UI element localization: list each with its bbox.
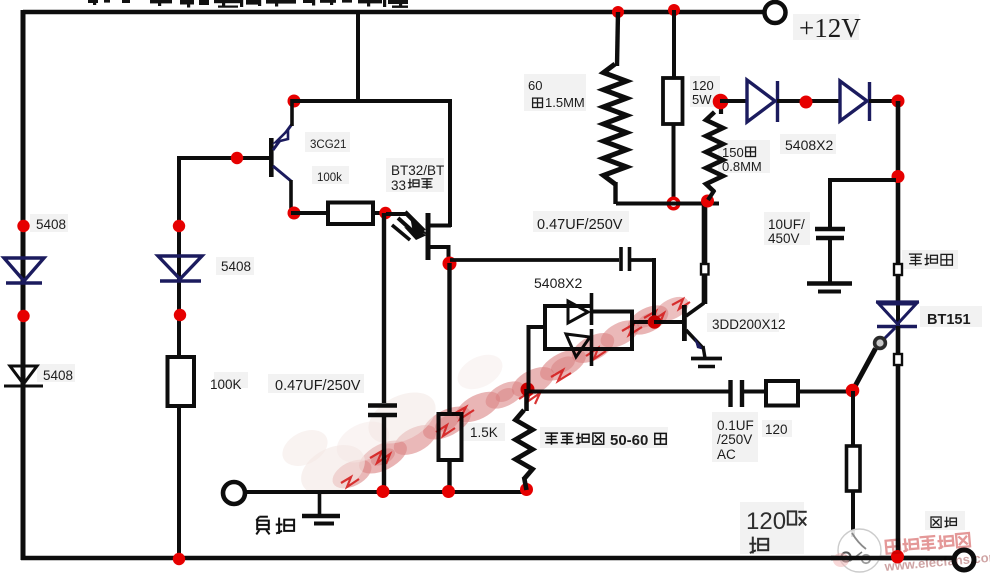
svg-text:50-60: 50-60: [610, 432, 648, 449]
node R1 right: [379, 207, 391, 219]
capacitor C3 10UF/450V: [815, 229, 845, 238]
wire bottom rail: [21, 556, 953, 561]
wire SCR cathode: [896, 326, 901, 557]
diode D3 5408: [158, 256, 202, 281]
node below D3: [174, 309, 186, 321]
wire C3 vertical upper: [828, 178, 832, 227]
watermark elecfans stamp: [833, 529, 881, 572]
svg-text:5W: 5W: [692, 92, 712, 107]
wire R4 bottom lead: [672, 124, 676, 198]
wire R6 top lead: [851, 391, 855, 447]
node top rail L2: [612, 6, 624, 18]
wire gate diagonal: [854, 349, 876, 390]
label 0.1UF /250V AC: [717, 418, 754, 462]
svg-text:3DD200X12: 3DD200X12: [712, 317, 786, 332]
node top of D1: [17, 220, 29, 232]
node top of D3: [173, 220, 185, 232]
svg-text:5408: 5408: [221, 259, 251, 274]
wire L3node to D6: [720, 99, 747, 103]
node right bus top: [892, 95, 905, 108]
title text (cropped at top edge): [88, 0, 408, 8]
svg-text:0.47UF/250V: 0.47UF/250V: [537, 217, 623, 233]
terminal bottom right: [954, 550, 974, 570]
wire top +12V rail: [23, 10, 763, 15]
resistor R2 100K: [168, 357, 195, 406]
svg-text:150: 150: [722, 145, 744, 160]
watermark red diagonal band: [276, 292, 692, 505]
node gate junction: [846, 384, 860, 398]
wire base horizontal to Q1: [177, 156, 270, 160]
marker square on cathode: [894, 354, 902, 365]
svg-text:5408X2: 5408X2: [534, 275, 582, 291]
node between D6 D7: [800, 96, 813, 109]
label 10UF/450V: [768, 217, 805, 246]
svg-text:120: 120: [692, 78, 714, 93]
resistor R4 120 5W: [663, 78, 683, 124]
svg-text:0.47UF/250V: 0.47UF/250V: [275, 378, 361, 394]
node top rail R4: [668, 4, 680, 16]
diode D2 5408: [4, 366, 43, 386]
node rail under R3: [442, 485, 455, 498]
wire C2 down to Q3 base node: [652, 258, 656, 322]
node cathode at rail repaint: [891, 550, 904, 563]
wire box left lead down to L1 node: [527, 325, 531, 390]
wire R4 top lead: [672, 10, 676, 80]
svg-text:+12V: +12V: [799, 13, 861, 43]
label 震荡线圈 50-60匝: [545, 432, 666, 449]
svg-text:120: 120: [746, 508, 786, 535]
marker square on bus: [894, 264, 902, 275]
wire through SCR symbol: [896, 300, 900, 328]
wire R6 bottom lead: [851, 491, 855, 537]
inductor L1 oscillation coil 50-60 turns: [516, 410, 533, 479]
label 120 5W: [692, 78, 714, 107]
wire C1 upper lead: [382, 213, 386, 403]
ground GND2 (Q3 emitter): [691, 346, 722, 367]
node between D1 D2: [17, 310, 29, 322]
svg-text:0.1UF: 0.1UF: [717, 418, 754, 433]
wire stub from top rail: [356, 12, 360, 101]
label BT32/BT 33均可: [391, 163, 444, 193]
transistor Q2 BT32/BT33 emitter+bar: [386, 212, 451, 263]
node Q3 base: [648, 315, 662, 329]
svg-text:33: 33: [391, 178, 406, 193]
node L3 top / D6 anode: [713, 94, 729, 110]
node Q1 emitter top: [288, 95, 301, 108]
node L1 top junction: [521, 383, 535, 397]
wire Q2B1-node to C2: [450, 258, 619, 262]
inductor L3 150 turns 0.8MM: [706, 112, 723, 192]
label 120欧姆: [746, 508, 807, 553]
svg-text:3CG21: 3CG21: [310, 139, 346, 151]
resistor R3 1.5K: [439, 414, 462, 460]
wire R1 to Q2: [373, 211, 388, 215]
svg-text:120: 120: [765, 422, 788, 437]
wire Q1 top to right loop: [292, 99, 450, 103]
svg-text:AC: AC: [717, 447, 736, 462]
label 150匝 0.8MM: [722, 145, 762, 174]
diode D4: [568, 301, 588, 323]
watermark elecfans red text: [881, 530, 990, 574]
node Q1 collector: [288, 207, 301, 220]
diode D1 5408: [4, 258, 44, 283]
resistor R1 100k: [328, 203, 373, 225]
inductor L2 60 turns 1.5MM: [604, 64, 627, 184]
wire right bus upper: [896, 101, 901, 303]
svg-text:100K: 100K: [210, 377, 242, 392]
diode D5 (reversed, sketchy): [566, 334, 590, 357]
transistor Q3 3DD200X12: [654, 303, 704, 350]
wire bottom rail repaint over stamp: [831, 556, 954, 560]
node C3 tap: [892, 170, 905, 183]
svg-text:0.8MM: 0.8MM: [722, 159, 762, 174]
svg-text:60: 60: [528, 78, 542, 93]
node column2 at bottom rail: [173, 553, 185, 565]
node Q2 B1: [443, 257, 457, 271]
wire column-2 vertical: [177, 156, 181, 558]
terminal 负极: [223, 482, 245, 504]
thyristor SCR1 BT151: [876, 302, 919, 339]
diode D6 5408: [747, 80, 778, 122]
transistor Q1 3CG21: [269, 99, 292, 215]
node rail coil L1: [520, 483, 533, 496]
svg-text:5408: 5408: [36, 217, 66, 232]
wire C2 right lead: [631, 258, 654, 262]
marker square on Q3 collector wire: [701, 264, 709, 275]
wire middle horizontal: [616, 202, 719, 206]
node ring R4 bottom: [668, 198, 678, 208]
svg-text:1.5MM: 1.5MM: [545, 95, 585, 110]
label 可控硅: [909, 254, 953, 266]
wire R3 to rail: [447, 460, 451, 492]
svg-text:BT32/BT: BT32/BT: [391, 163, 444, 178]
node gate ring: [875, 338, 886, 349]
wire C3 lower lead: [828, 240, 832, 282]
svg-text:450V: 450V: [768, 231, 800, 246]
wire L1node to C4: [527, 390, 729, 394]
svg-text:1.5K: 1.5K: [470, 425, 498, 440]
wire C4 to R5: [744, 390, 766, 394]
wire Q2-B1 down to R3: [447, 263, 451, 416]
resistor R5 120: [766, 381, 798, 406]
node L3 bottom: [701, 195, 714, 208]
wire box right lead: [632, 320, 655, 324]
svg-text:100k: 100k: [317, 172, 342, 184]
wire C1 lower lead: [382, 417, 386, 491]
capacitor C4 0.1UF/250V AC: [731, 380, 743, 407]
wire D7 to right bus: [869, 99, 900, 103]
node rail under C1: [377, 485, 390, 498]
label 负极: [256, 517, 294, 535]
terminal +12V: [765, 2, 786, 23]
wire R5 to gate node: [798, 390, 853, 394]
diode D7 5408: [840, 81, 870, 121]
wire left vertical bus: [21, 10, 26, 560]
wire negative rail: [244, 490, 527, 494]
node cathode at bottom rail: [891, 551, 904, 564]
capacitor C2 0.47UF/250V coupling: [621, 247, 630, 271]
wire Q3 collector thick vertical: [702, 200, 708, 304]
svg-text:5408: 5408: [43, 368, 73, 383]
wire collector to R1: [291, 211, 328, 215]
svg-text:10UF/: 10UF/: [768, 217, 805, 232]
ground GND3: [807, 284, 852, 292]
ground GND1: [302, 492, 340, 524]
label 网线: [931, 517, 956, 528]
svg-text:BT151: BT151: [927, 312, 971, 328]
wire D6 to D7: [777, 99, 841, 103]
capacitor C1 0.47UF/250V: [368, 406, 397, 416]
wire C3 horizontal lead: [828, 178, 896, 182]
svg-text:/250V: /250V: [717, 432, 752, 447]
node base wire: [231, 152, 243, 164]
resistor R6 120 ohm: [847, 446, 861, 491]
diode pair box D4 D5: [543, 293, 634, 366]
wire right loop vertical: [448, 99, 452, 227]
svg-text:5408X2: 5408X2: [785, 137, 833, 153]
